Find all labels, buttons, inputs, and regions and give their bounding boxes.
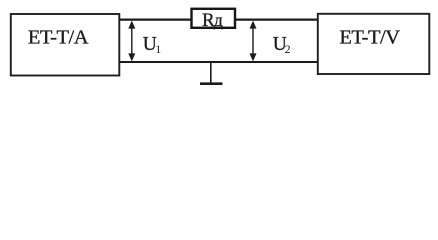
label U2: [273, 34, 291, 56]
svg-text:ET-T/A: ET-T/A: [28, 27, 89, 49]
ground: [200, 62, 223, 84]
wire: top right segment (resistor to ET-T/V): [235, 19, 319, 21]
resistor Rд box: [192, 9, 236, 28]
wire: top left segment (ET-T/A to resistor): [119, 19, 192, 21]
wire: bottom segment (ET-T/A to ET-T/V): [119, 61, 318, 63]
label ET-T/A: [28, 27, 89, 49]
svg-text:2: 2: [285, 42, 291, 56]
block ET-T/V box: [318, 14, 430, 74]
voltage arrow U2 (double-headed): [250, 21, 257, 62]
svg-text:ET-T/V: ET-T/V: [339, 26, 400, 48]
block U1 source: ET-T/A box: [11, 14, 120, 76]
label ET-T/V: [339, 26, 400, 48]
svg-text:д: д: [214, 10, 223, 30]
svg-text:1: 1: [155, 42, 161, 56]
value label Rд: [202, 10, 223, 31]
label U1: [143, 34, 161, 56]
voltage arrow U1 (double-headed): [128, 21, 135, 62]
